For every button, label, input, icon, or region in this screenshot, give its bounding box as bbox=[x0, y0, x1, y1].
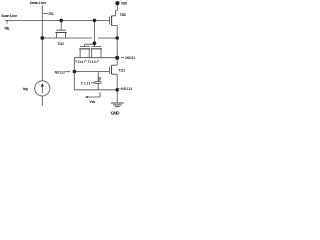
svg-text:Scan Line: Scan Line bbox=[1, 13, 18, 18]
svg-text:T115: T115 bbox=[120, 13, 126, 17]
svg-text:Cs: Cs bbox=[98, 77, 102, 81]
svg-text:ND112: ND112 bbox=[55, 70, 66, 74]
svg-text:Vss: Vss bbox=[89, 100, 95, 104]
svg-text:C111: C111 bbox=[81, 82, 91, 86]
svg-text:Data Line: Data Line bbox=[30, 0, 47, 5]
svg-text:WSL: WSL bbox=[5, 26, 10, 30]
svg-text:T112: T112 bbox=[57, 42, 64, 46]
svg-text:T111: T111 bbox=[118, 69, 125, 73]
svg-text:ND111: ND111 bbox=[125, 56, 135, 60]
svg-text:DTL: DTL bbox=[49, 12, 55, 16]
svg-text:T114: T114 bbox=[75, 60, 83, 64]
svg-text:VDD: VDD bbox=[121, 2, 128, 6]
svg-text:ND113: ND113 bbox=[121, 87, 132, 91]
svg-text:GND: GND bbox=[111, 111, 121, 116]
svg-text:T113: T113 bbox=[88, 60, 96, 64]
svg-text:Isig: Isig bbox=[23, 87, 28, 91]
